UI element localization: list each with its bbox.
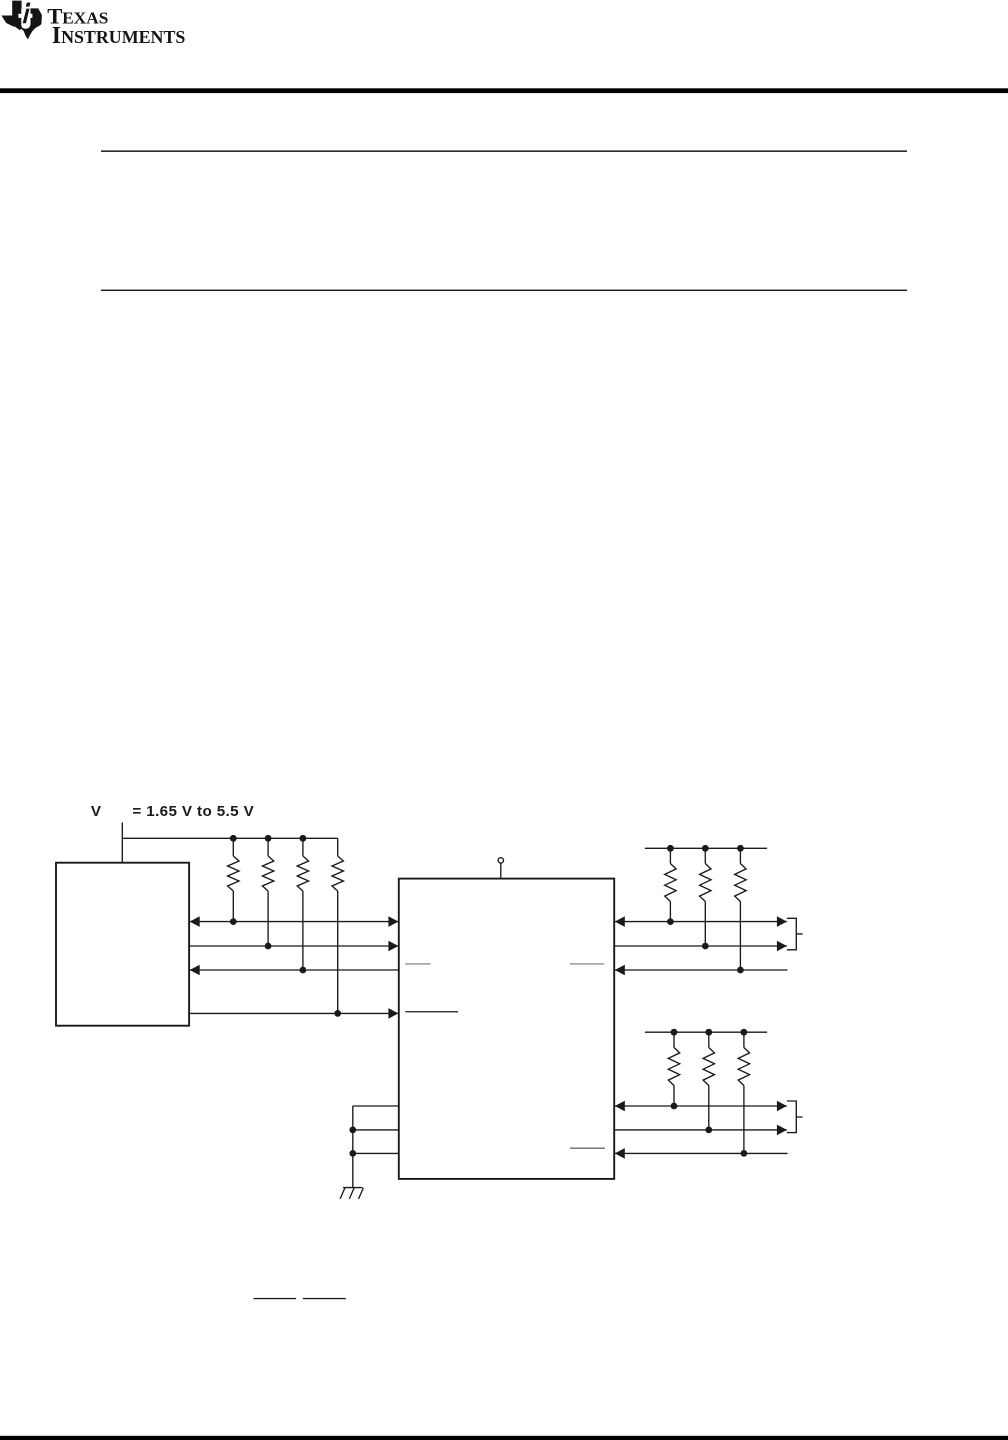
wire line B1 (bidirectional): [614, 921, 787, 923]
resistor R4 (pull-up on A-side line 4): [337, 838, 339, 856]
TI logo Texas-state emblem: [1, 1, 42, 40]
arrowhead into IC, line OE: [388, 1008, 398, 1019]
wire line B4 (bidirectional): [614, 1105, 787, 1107]
footer bar: [0, 1436, 1008, 1440]
node: junction dot top rail / resistor R5: [667, 845, 674, 852]
wire GND stub pin 3: [353, 1152, 399, 1154]
wire line A3 (from IC): [189, 969, 399, 971]
node: junction dot resistor R6 / line: [702, 943, 709, 950]
node: junction dot GND/pin3: [349, 1150, 356, 1157]
node: junction dot resistor R7 / line: [737, 967, 744, 974]
node: junction dot resistor R5 / line: [667, 918, 674, 925]
wire line B2: [614, 945, 787, 947]
arrowhead into controller, line A1: [190, 916, 200, 927]
node: junction dot bottom rail / resistor R9: [705, 1029, 712, 1036]
node: junction dot resistor R3 / line: [300, 967, 307, 974]
resistor R7 (pull-up on B-side line 3): [739, 848, 741, 863]
pin OE overbar inside IC: [405, 1011, 458, 1013]
node: junction dot resistor R8 / line: [671, 1103, 678, 1110]
resistor R2 (pull-up on A-side line 2): [267, 838, 269, 856]
arrowhead into IC, line B3: [615, 965, 625, 976]
controller box (left device): [56, 863, 189, 1026]
pin label mark (grey) right-bottom inside IC: [570, 1147, 605, 1149]
wire VCCB pull-up rail (top right): [645, 847, 767, 849]
arrowhead to peripheral, line B2: [777, 941, 787, 952]
node: junction dot VCC rail / resistor 2: [265, 835, 272, 842]
node: junction dot top rail / resistor R6: [702, 845, 709, 852]
resistor R5 (pull-up on B-side line 1): [669, 848, 671, 863]
node: junction dot top rail / resistor R7: [737, 845, 744, 852]
resistor R6 (pull-up on B-side line 2): [704, 848, 706, 863]
footnote overbar 2: [303, 1298, 346, 1299]
resistor R9 (pull-up on B-side line 5): [708, 1032, 710, 1047]
wire GND vertical: [352, 1106, 354, 1188]
resistor R3 (pull-up on A-side line 3): [302, 838, 304, 856]
header bar: [0, 88, 1008, 93]
arrowhead to peripheral, line B5: [777, 1125, 787, 1136]
svg-text:V: V: [91, 803, 102, 820]
arrowhead into IC, line A2: [388, 941, 398, 952]
node: junction dot resistor R2 / line: [265, 943, 272, 950]
wire line A2 (to IC): [189, 945, 399, 947]
brace to bottom peripheral: [787, 1101, 803, 1133]
node: junction dot bottom rail / resistor R10: [741, 1029, 748, 1036]
node: junction dot resistor R4 / line: [334, 1010, 341, 1017]
wire VCC horizontal rail (left pull-up rail): [122, 837, 337, 839]
wire pull-up rail (bottom right): [645, 1031, 767, 1033]
node: junction dot VCC rail / resistor 3: [300, 835, 307, 842]
wire line OE (to IC): [189, 1012, 399, 1014]
arrowhead into IC, line B1: [615, 916, 625, 927]
wire line A1 (bidirectional): [189, 921, 399, 923]
node: junction dot resistor R9 / line: [705, 1127, 712, 1134]
wire line B3: [614, 969, 787, 971]
resistor R1 (pull-up on A-side line 1): [232, 838, 234, 856]
svg-text:= 1.65 V to 5.5 V: = 1.65 V to 5.5 V: [132, 803, 254, 820]
IC U1 (level translator): [399, 879, 614, 1179]
wire VCCB pin stub: [500, 863, 502, 878]
resistor R10 (pull-up on B-side line 6): [743, 1032, 745, 1047]
node: junction dot bottom rail / resistor R8: [671, 1029, 678, 1036]
wire GND stub pin 1: [353, 1105, 399, 1107]
pin label mark (grey) left inside IC: [405, 963, 431, 965]
arrowhead into controller, line A3: [190, 965, 200, 976]
feature-box top rule: [101, 150, 907, 152]
svg-text:INSTRUMENTS: INSTRUMENTS: [52, 23, 186, 49]
node: junction dot GND/pin2: [349, 1127, 356, 1134]
feature-box bottom rule: [101, 290, 907, 291]
resistor R8 (pull-up on B-side line 4): [673, 1032, 675, 1047]
node: junction dot VCC rail / resistor 1: [230, 835, 237, 842]
wire VCC vertical stub into controller: [121, 823, 123, 863]
arrowhead into IC, line B4: [615, 1101, 625, 1112]
brace to top peripheral: [787, 918, 803, 950]
ground symbol: [340, 1188, 363, 1199]
pin VCCB terminal circle on IC top: [498, 858, 503, 863]
arrowhead into IC, line B6: [615, 1148, 625, 1159]
arrowhead into IC, line A1: [388, 916, 398, 927]
node: junction dot resistor R1 / line: [230, 918, 237, 925]
node: junction dot resistor R10 / line: [741, 1150, 748, 1157]
arrowhead to peripheral, line B4: [777, 1101, 787, 1112]
wire GND stub pin 2: [353, 1129, 399, 1131]
wire line B6: [614, 1152, 787, 1154]
pin label mark (grey) right-top inside IC: [570, 963, 604, 965]
footnote overbar 1: [254, 1298, 297, 1299]
wire line B5: [614, 1129, 787, 1131]
arrowhead to peripheral, line B1: [777, 916, 787, 927]
